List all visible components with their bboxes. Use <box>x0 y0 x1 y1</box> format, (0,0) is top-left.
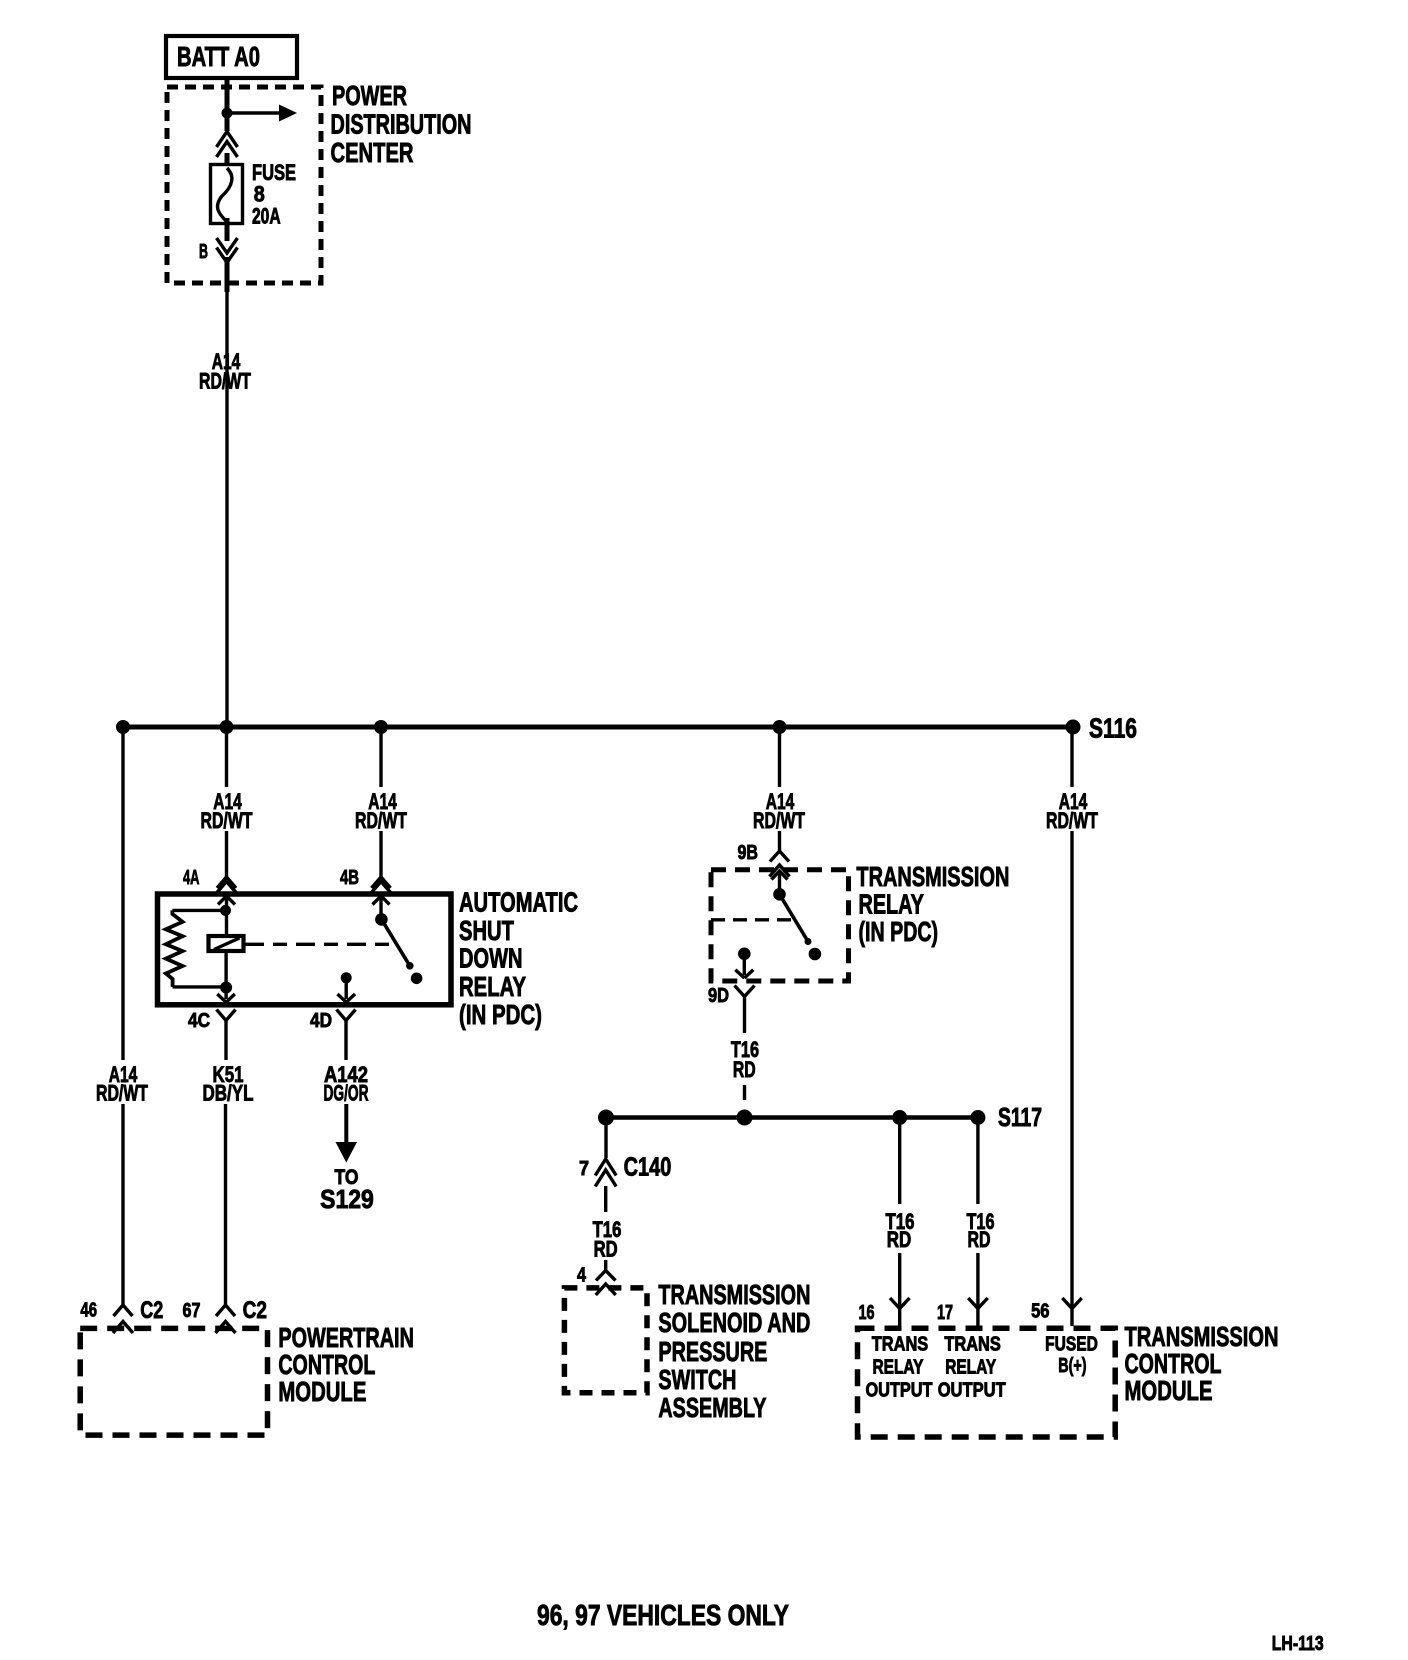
wire C140 down <box>604 1186 607 1212</box>
svg-text:TRANSMISSION: TRANSMISSION <box>856 861 1009 892</box>
splice bus S116 <box>123 725 1073 730</box>
node coil top <box>220 905 231 916</box>
connector pin 9D below relay <box>735 986 755 1034</box>
svg-text:ASSEMBLY: ASSEMBLY <box>658 1392 766 1423</box>
node coil bottom <box>220 982 232 994</box>
svg-text:DISTRIBUTION: DISTRIBUTION <box>331 109 472 140</box>
svg-text:S116: S116 <box>1089 713 1137 744</box>
svg-text:(IN PDC): (IN PDC) <box>459 999 542 1030</box>
svg-text:9B: 9B <box>738 842 759 864</box>
wire trans relay output 1 lower <box>898 1253 901 1309</box>
transmission solenoid assembly dashed box <box>564 1288 647 1393</box>
wire 4A to coil node <box>225 896 228 936</box>
svg-text:DOWN: DOWN <box>459 943 523 974</box>
wire A14 left branch lower <box>121 1104 124 1305</box>
svg-text:BATT A0: BATT A0 <box>177 41 260 72</box>
svg-text:B(+): B(+) <box>1058 1355 1086 1377</box>
label FUSED B(+) <box>1045 1333 1098 1377</box>
connector double chevron B (down) <box>217 238 238 263</box>
svg-text:RD: RD <box>733 1057 756 1082</box>
connector pin 67 into PCM <box>216 1305 236 1333</box>
wire A14 branch 2 upper <box>225 727 228 787</box>
node S117 branch 16 <box>892 1110 907 1125</box>
svg-text:4B: 4B <box>340 867 359 889</box>
wire A14 left branch upper <box>121 727 124 1060</box>
svg-text:RELAY: RELAY <box>459 971 526 1002</box>
svg-text:TRANS: TRANS <box>872 1333 929 1355</box>
wire A14 branch 4 lower <box>778 831 781 851</box>
connector pin 4A into ASD relay <box>217 877 237 893</box>
transmission control module dashed box <box>858 1328 1116 1437</box>
label A14 RD/WT right branch <box>1046 789 1098 833</box>
wire to TSA <box>604 1260 607 1271</box>
svg-text:C2: C2 <box>243 1297 267 1324</box>
label TRANSMISSION CONTROL MODULE <box>1125 1321 1279 1406</box>
label TRANSMISSION SOLENOID AND PRESSURE SWITCH ASSEMBLY <box>658 1279 810 1423</box>
svg-text:RELAY: RELAY <box>873 1357 924 1379</box>
powertrain control module dashed box <box>80 1328 267 1435</box>
label A14 RD/WT branch 2 <box>201 789 253 833</box>
wire K51 to PCM <box>224 1104 227 1305</box>
label T16 RD wire 1 <box>886 1209 915 1252</box>
svg-text:4D: 4D <box>310 1010 332 1032</box>
svg-text:67: 67 <box>183 1300 201 1322</box>
connector double chevron above fuse <box>217 132 238 158</box>
label K51 DB/YL <box>203 1062 254 1106</box>
svg-text:SOLENOID AND: SOLENOID AND <box>658 1307 810 1338</box>
node S116 branch 2 <box>220 720 234 734</box>
svg-text:RD/WT: RD/WT <box>1046 808 1098 833</box>
svg-text:RD/WT: RD/WT <box>199 369 251 394</box>
automatic shut down relay box <box>158 894 452 1005</box>
wire node 9D to box edge with arrowhead <box>735 954 753 978</box>
connector pin 4C below ASD <box>217 1010 236 1061</box>
node S116 left end <box>116 720 130 734</box>
switch arm <box>780 894 809 941</box>
svg-text:SWITCH: SWITCH <box>658 1364 736 1395</box>
svg-text:56: 56 <box>1031 1301 1049 1323</box>
svg-text:RD/WT: RD/WT <box>355 808 407 833</box>
battery feed BATT A0 box <box>166 36 297 78</box>
svg-text:RD/WT: RD/WT <box>753 808 805 833</box>
svg-text:OUTPUT: OUTPUT <box>938 1380 1006 1402</box>
node S116 branch 4 <box>773 720 787 734</box>
wire chevron to fuse <box>225 153 230 172</box>
svg-text:TRANS: TRANS <box>944 1333 1001 1355</box>
wire trans relay output 2 upper <box>976 1118 979 1205</box>
wire A14 right branch upper <box>1070 727 1073 787</box>
wire resistor bottom to node <box>173 985 227 988</box>
svg-text:PRESSURE: PRESSURE <box>658 1336 767 1367</box>
label TRANS RELAY OUTPUT pin16 <box>866 1333 933 1401</box>
connector pin 46 into PCM <box>113 1305 133 1333</box>
label POWER DISTRIBUTION CENTER <box>331 80 472 168</box>
wire A14 branch 2 lower <box>225 831 228 877</box>
svg-text:7: 7 <box>579 1158 589 1180</box>
svg-text:9D: 9D <box>708 985 729 1007</box>
label A14 RD/WT <box>199 349 251 394</box>
svg-text:16: 16 <box>859 1302 875 1324</box>
svg-text:96, 97 VEHICLES ONLY: 96, 97 VEHICLES ONLY <box>537 1600 789 1632</box>
svg-text:LH-113: LH-113 <box>1272 1633 1324 1655</box>
svg-text:CENTER: CENTER <box>331 137 414 168</box>
wire 4B to switch pivot <box>379 896 382 916</box>
wire 9B to pivot <box>778 871 781 891</box>
svg-text:C140: C140 <box>624 1152 672 1182</box>
switch arm end dot <box>406 962 414 970</box>
wire trans relay output 1 upper <box>898 1118 901 1205</box>
label TRANS RELAY OUTPUT pin17 <box>938 1333 1006 1401</box>
svg-text:POWER: POWER <box>332 80 407 111</box>
svg-text:S117: S117 <box>998 1102 1042 1132</box>
svg-text:AUTOMATIC: AUTOMATIC <box>459 887 578 918</box>
label A14 RD/WT branch 3 <box>355 789 407 833</box>
arrow to S129 <box>336 1142 358 1163</box>
wire fuse to connector B <box>225 218 230 241</box>
switch arm end dot <box>805 938 812 945</box>
connector pin 9B into transmission relay <box>770 851 790 877</box>
node S117 right end <box>970 1110 985 1125</box>
svg-text:DB/YL: DB/YL <box>203 1081 254 1106</box>
svg-text:(IN PDC): (IN PDC) <box>859 916 939 947</box>
svg-text:4: 4 <box>577 1265 587 1287</box>
wire A142 down <box>344 1104 348 1143</box>
label TO S129 <box>320 1166 374 1214</box>
svg-text:RD: RD <box>887 1227 912 1252</box>
connector C140 double chevron <box>595 1159 616 1187</box>
switch contact dot <box>411 973 423 985</box>
svg-text:RD/WT: RD/WT <box>96 1081 148 1106</box>
svg-text:OUTPUT: OUTPUT <box>866 1380 933 1402</box>
svg-text:MODULE: MODULE <box>1125 1375 1213 1406</box>
wire trans relay output 2 lower <box>976 1253 979 1309</box>
switch pivot node <box>375 913 388 926</box>
wire S117 to C140 <box>604 1118 607 1159</box>
label A14 RD/WT branch 4 <box>753 789 805 833</box>
node 4D inside relay <box>341 972 352 983</box>
svg-text:46: 46 <box>80 1300 97 1322</box>
wire node to resistor top <box>172 909 225 912</box>
svg-text:S129: S129 <box>320 1184 374 1214</box>
arrowhead entering ASD at 4A <box>218 896 235 905</box>
relay coil U1 <box>209 936 244 951</box>
label T16 RD (9D wire) <box>731 1037 759 1082</box>
arrowhead entering ASD at 4B <box>373 896 390 905</box>
svg-text:RD/WT: RD/WT <box>201 808 253 833</box>
wire node 4D to box edge with arrowhead <box>338 978 356 1003</box>
node S117 left end <box>598 1110 614 1126</box>
arrowhead entering relay at 9B <box>772 871 788 880</box>
power distribution center dashed box <box>167 87 321 283</box>
connector pin 4B into ASD relay <box>371 877 391 893</box>
wire node 4C to box edge with arrowhead <box>217 988 235 1003</box>
splice bus S117 <box>606 1115 978 1120</box>
svg-text:4A: 4A <box>183 867 200 889</box>
label A142 DG/OR <box>324 1062 369 1106</box>
svg-text:RELAY: RELAY <box>945 1357 996 1379</box>
dashed actuation link from coil to switch <box>245 943 392 946</box>
node inside PDC <box>222 108 233 119</box>
fuse 8 20A <box>211 160 297 229</box>
svg-text:FUSED: FUSED <box>1045 1333 1098 1355</box>
connector pin 4D below ASD <box>337 1010 356 1061</box>
svg-text:17: 17 <box>937 1302 953 1324</box>
label TRANSMISSION RELAY (IN PDC) <box>856 861 1009 947</box>
label A14 RD/WT left branch <box>96 1062 148 1106</box>
svg-text:RELAY: RELAY <box>859 889 924 920</box>
transmission relay dashed box <box>711 870 849 981</box>
wire A14 branch 3 upper <box>379 727 382 787</box>
wire A14 from PDC down to splice S116 <box>225 257 230 292</box>
svg-text:B: B <box>199 241 208 263</box>
node S117 from 9D <box>737 1110 753 1126</box>
switch pivot node <box>773 888 786 901</box>
arrow feed to other circuits <box>230 105 297 122</box>
svg-text:SHUT: SHUT <box>459 915 514 946</box>
wire A14 branch 4 upper <box>778 727 781 787</box>
connector pin 17 into TCM <box>968 1298 988 1326</box>
wire A14 branch 3 lower <box>379 831 382 877</box>
svg-text:20A: 20A <box>252 203 281 228</box>
connector pin 56 into TCM <box>1062 1298 1082 1326</box>
label POWERTRAIN CONTROL MODULE <box>278 1322 414 1407</box>
svg-text:MODULE: MODULE <box>278 1376 366 1407</box>
connector pin 4 into TSA <box>596 1271 616 1296</box>
node S116 right end <box>1066 720 1081 735</box>
node S116 branch 3 <box>374 720 388 734</box>
svg-text:RD: RD <box>594 1237 618 1262</box>
label AUTOMATIC SHUT DOWN RELAY (IN PDC) <box>459 887 578 1031</box>
svg-text:TRANSMISSION: TRANSMISSION <box>658 1279 810 1310</box>
wire coil bottom to node <box>224 951 227 988</box>
node 9D inside relay <box>738 948 751 961</box>
svg-text:C2: C2 <box>140 1297 163 1324</box>
connector pin 16 into TCM <box>890 1298 910 1326</box>
switch contact dot <box>809 948 822 961</box>
svg-text:DG/OR: DG/OR <box>324 1081 369 1106</box>
svg-text:RD: RD <box>968 1227 991 1252</box>
resistor (coil suppression) zigzag <box>166 910 183 987</box>
dashed actuation link <box>711 918 795 921</box>
wire A14 right branch to TCM <box>1070 831 1073 1309</box>
switch arm <box>381 919 409 966</box>
label T16 RD (C140 wire) <box>593 1217 622 1262</box>
wire from battery into PDC <box>225 78 230 131</box>
svg-text:4C: 4C <box>188 1010 210 1032</box>
label T16 RD wire 2 <box>967 1209 995 1252</box>
wire stub to S117 <box>743 1085 746 1100</box>
